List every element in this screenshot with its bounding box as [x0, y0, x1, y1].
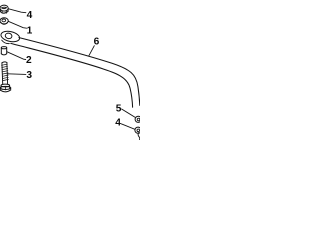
svg-text:6: 6: [94, 37, 100, 48]
svg-text:4: 4: [115, 118, 121, 129]
eye thickness arc: [2, 40, 10, 44]
svg-text:3: 3: [26, 70, 32, 81]
nut 4 (top-left locknut): [0, 5, 8, 13]
washer 5 (bottom-right, edge-cut): [135, 116, 141, 122]
corner part fragment (cut off washer): [138, 133, 140, 141]
leader line to label 3: [8, 73, 26, 76]
link rod 6: bottom edge wire: [11, 43, 133, 107]
bolt 3 thread hatching: [2, 64, 9, 81]
washer 1 (top-left flat washer): [0, 18, 8, 25]
svg-text:4: 4: [27, 10, 33, 21]
leader line to label 2: [7, 52, 26, 60]
leader line to label 1: [8, 21, 26, 28]
leader line to label 4 (bottom): [121, 124, 135, 130]
link rod 6: top edge wire: [19, 38, 140, 106]
link rod 6: eye outer ellipse: [0, 30, 21, 44]
svg-text:5: 5: [116, 104, 122, 115]
leader line to label 5: [122, 109, 135, 117]
washer 4 (bottom-right, edge-cut): [135, 127, 141, 133]
svg-text:2: 2: [26, 55, 32, 66]
leader line to label 6: [89, 46, 94, 56]
spacer 2 (cylindrical bushing): [1, 47, 6, 55]
bolt 3: hex head and flange: [0, 84, 11, 92]
svg-text:1: 1: [27, 26, 33, 37]
leader line to label 4: [9, 9, 26, 13]
bolt 3: threaded shank: [2, 62, 9, 84]
eye inner hole: [5, 33, 13, 40]
